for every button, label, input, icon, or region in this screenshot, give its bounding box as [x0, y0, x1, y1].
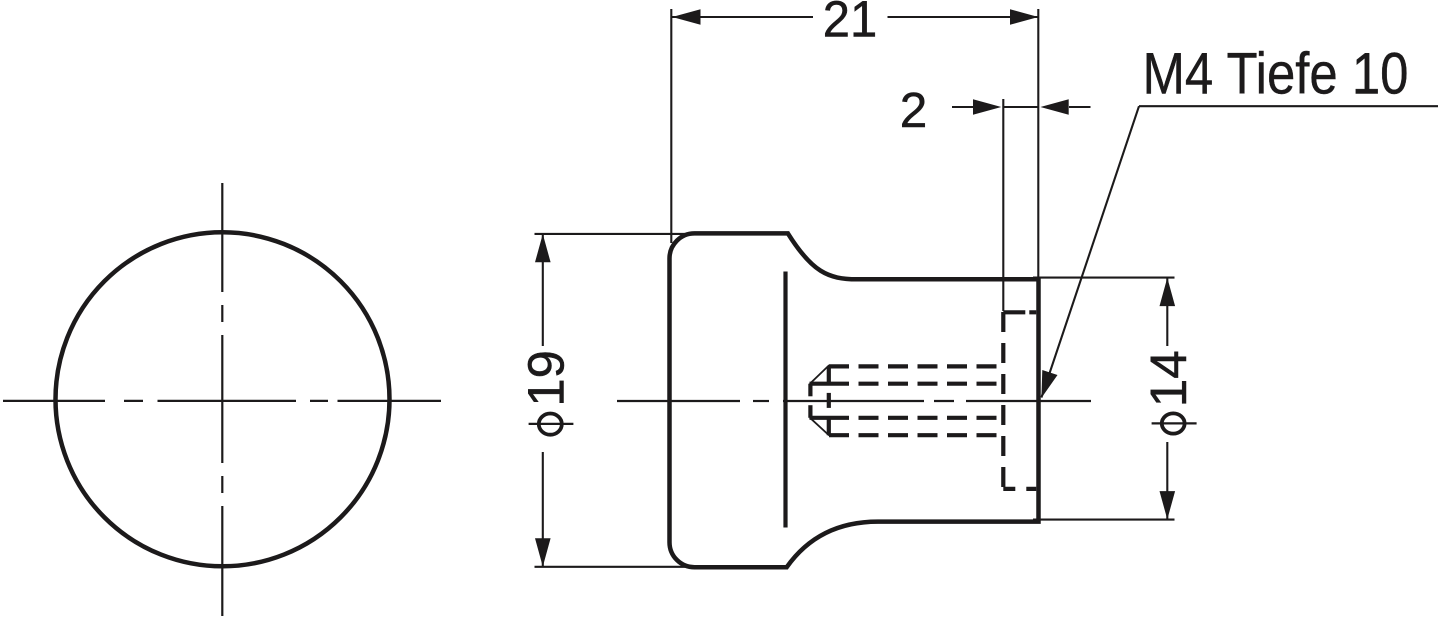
thread hidden line: minor bottom [810, 416, 1004, 420]
thread hole bottom vertical (minor) [808, 384, 812, 418]
dim phi14 extension bottom [1033, 519, 1175, 521]
recess hidden top [1003, 310, 1036, 314]
dim 2 extension line [1002, 99, 1004, 311]
side view outline [670, 233, 1039, 567]
dim phi14 arrow up [1160, 278, 1176, 306]
dim phi14 line [1166, 278, 1168, 520]
leader line for M4 note [1041, 106, 1438, 397]
front view horizontal centerline [3, 400, 441, 402]
side view inner edge line [783, 272, 787, 528]
thread point chamfer top [810, 365, 830, 384]
leader arrowhead [1041, 370, 1057, 398]
dim phi19 extension top [535, 233, 691, 235]
dim 21 arrow right [1010, 9, 1038, 25]
dim phi19 arrow down [535, 538, 551, 566]
dim phi19 line [542, 234, 544, 567]
dim 2 arrow left [973, 99, 1001, 115]
svg-text:M4 Tiefe 10: M4 Tiefe 10 [1143, 42, 1409, 107]
dim phi19 phi symbol [529, 414, 574, 435]
dim phi19 arrow up [535, 234, 551, 262]
thread hidden line: minor top [810, 382, 1004, 386]
front view vertical centerline [221, 183, 223, 616]
recess hidden vertical [1001, 312, 1005, 489]
dim phi14 arrow down [1160, 491, 1176, 519]
front view circle [56, 232, 390, 566]
dim phi14 extension top [1033, 277, 1175, 279]
svg-text:2: 2 [900, 83, 928, 138]
recess hidden bottom [1003, 487, 1036, 491]
thread hidden line: major bottom [829, 433, 1003, 437]
thread point chamfer bottom [810, 418, 830, 436]
dim phi14 phi symbol [1152, 413, 1197, 433]
dim phi19 extension bottom [535, 566, 700, 568]
side view centerline [617, 400, 1091, 402]
svg-text:19: 19 [517, 350, 574, 407]
dim 21 extension line left [670, 9, 672, 243]
dim 21 line [671, 16, 1038, 18]
svg-text:21: 21 [823, 0, 878, 48]
svg-text:14: 14 [1140, 350, 1197, 407]
thread hidden line: major top [829, 364, 1003, 368]
dim 2 lines [952, 106, 1091, 108]
dim 21 arrow left [672, 9, 700, 25]
dim 21 / dim 2 shared extension line right [1037, 9, 1039, 277]
thread end vertical (major) [827, 366, 831, 435]
dim 2 arrow right [1040, 99, 1068, 115]
